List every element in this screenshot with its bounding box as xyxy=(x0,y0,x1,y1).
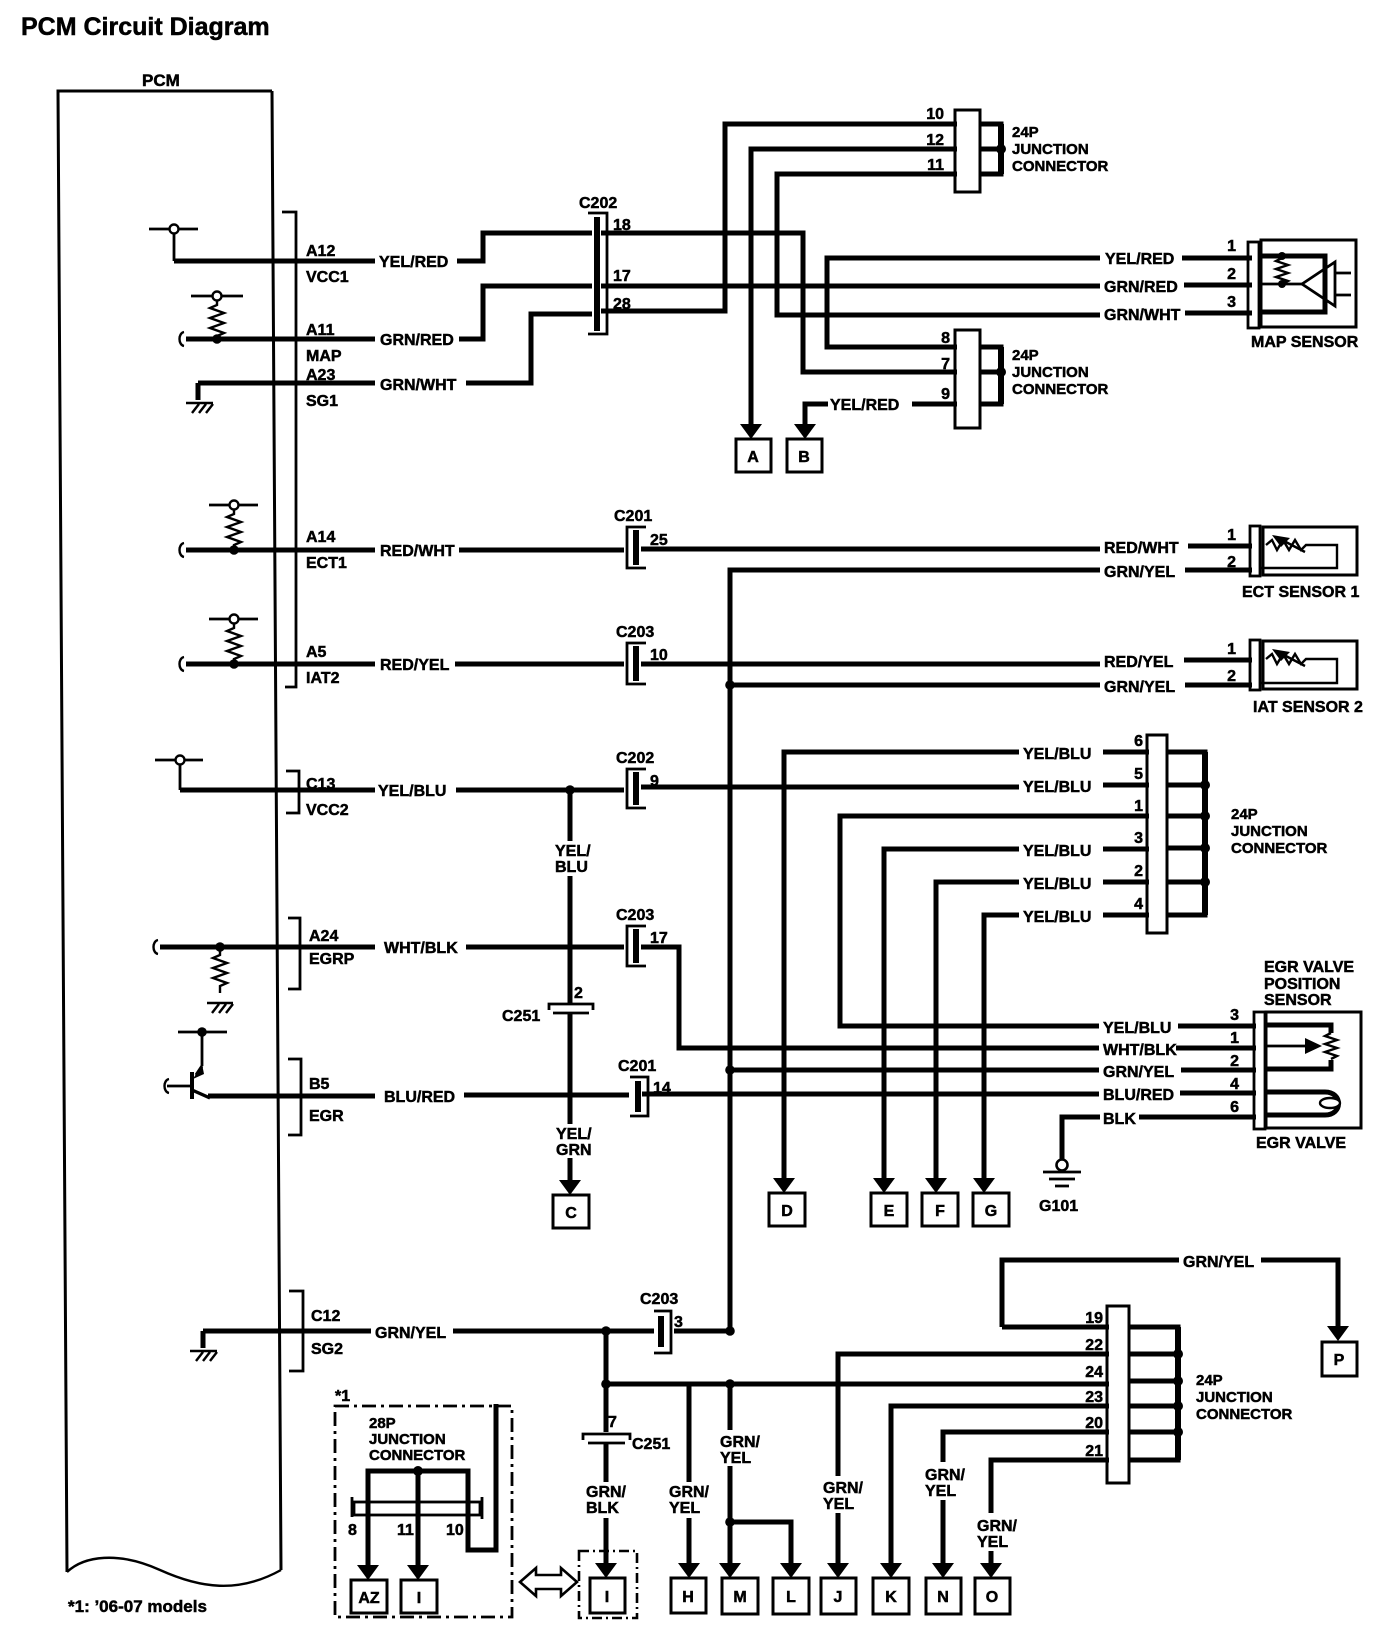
svg-text:AZ: AZ xyxy=(358,1590,380,1607)
label EGR VALVE POSITION SENSOR xyxy=(1264,959,1354,1009)
svg-text:GRN/YEL: GRN/YEL xyxy=(375,1325,446,1342)
svg-text:2: 2 xyxy=(574,985,583,1002)
svg-text:EGR: EGR xyxy=(309,1108,344,1125)
svg-text:19: 19 xyxy=(1085,1310,1103,1327)
wire pin22 row to arrow J xyxy=(838,1354,1109,1564)
arrow to B xyxy=(794,424,816,439)
svg-text:BLU/RED: BLU/RED xyxy=(1103,1087,1174,1104)
wire YEL/BLU drop to C251 xyxy=(568,790,573,841)
svg-text:JUNCTION: JUNCTION xyxy=(1012,364,1089,381)
wire C202-17 to MAP pin2 xyxy=(601,285,1252,286)
MAP internal amplifier triangle xyxy=(1302,262,1335,306)
svg-text:1: 1 xyxy=(1227,641,1236,658)
svg-text:JUNCTION: JUNCTION xyxy=(1196,1389,1273,1406)
svg-text:2: 2 xyxy=(1227,554,1236,571)
svg-text:SG1: SG1 xyxy=(306,393,338,410)
svg-text:E: E xyxy=(884,1203,895,1220)
connector C251 (7) xyxy=(583,1434,630,1443)
arrow to N xyxy=(932,1563,954,1578)
MAP sensor connector bar xyxy=(1248,242,1259,328)
svg-text:A14: A14 xyxy=(306,529,335,546)
junction dot L branch xyxy=(725,1517,735,1527)
svg-text:11: 11 xyxy=(397,1522,414,1539)
arrow to E xyxy=(873,1178,895,1193)
svg-text:6: 6 xyxy=(1134,733,1143,750)
junction connector 24P lower body xyxy=(1107,1306,1129,1483)
node M box xyxy=(722,1578,758,1614)
svg-text:G101: G101 xyxy=(1039,1198,1078,1215)
svg-text:22: 22 xyxy=(1085,1337,1103,1354)
wire ECT pin2 GRN/YEL xyxy=(730,570,1252,683)
svg-text:24P: 24P xyxy=(1012,347,1039,364)
svg-text:YEL/BLU: YEL/BLU xyxy=(1023,909,1091,926)
svg-text:RED/YEL: RED/YEL xyxy=(1104,654,1174,671)
svg-text:C203: C203 xyxy=(616,624,654,641)
wire pin24 row xyxy=(606,1382,1109,1387)
junction dot C12 branch xyxy=(601,1326,611,1336)
wire branch down to C251 xyxy=(604,1331,609,1384)
svg-text:EGRP: EGRP xyxy=(309,951,355,968)
svg-text:BLU: BLU xyxy=(555,859,588,876)
svg-text:C251: C251 xyxy=(502,1008,540,1025)
wire YEL/GRN to arrow C xyxy=(568,1014,573,1181)
svg-text:12: 12 xyxy=(926,132,944,149)
svg-text:10: 10 xyxy=(926,106,944,123)
MAP amplifier output stubs xyxy=(1335,273,1351,295)
wire pin20 row to arrow N xyxy=(943,1432,1109,1564)
junction upper bus bracket xyxy=(980,124,1006,174)
svg-text:1: 1 xyxy=(1227,238,1236,255)
wire C202-18 to junction pin7 xyxy=(601,233,957,372)
svg-text:BLK: BLK xyxy=(1103,1111,1136,1128)
wire C203-10 to IAT pin1 xyxy=(641,660,1252,664)
svg-text:7: 7 xyxy=(608,1414,617,1431)
bracket pin A24 xyxy=(288,918,300,989)
IAT sensor connector bar xyxy=(1250,640,1260,690)
ground SG2 internal xyxy=(190,1331,217,1361)
svg-text:GRN/: GRN/ xyxy=(586,1484,627,1501)
svg-text:A: A xyxy=(747,449,759,466)
svg-text:YEL/BLU: YEL/BLU xyxy=(1023,746,1091,763)
svg-text:WHT/BLK: WHT/BLK xyxy=(1103,1042,1177,1059)
svg-text:2: 2 xyxy=(1227,266,1236,283)
label GRN/YEL O xyxy=(977,1518,1018,1551)
svg-text:YEL/BLU: YEL/BLU xyxy=(1023,779,1091,796)
svg-text:*1: ’06-07 models: *1: ’06-07 models xyxy=(68,1597,207,1616)
label 24P junction connector second xyxy=(1012,347,1109,398)
svg-text:28P: 28P xyxy=(369,1415,396,1432)
svg-text:A12: A12 xyxy=(306,243,335,260)
svg-text:17: 17 xyxy=(650,930,668,947)
28P connector body xyxy=(352,1497,482,1519)
connector C202 (9) xyxy=(627,769,646,808)
svg-text:C203: C203 xyxy=(640,1291,678,1308)
svg-text:8: 8 xyxy=(348,1522,357,1539)
label GRN/YEL N xyxy=(925,1467,966,1500)
svg-text:M: M xyxy=(733,1589,746,1606)
svg-text:YEL/RED: YEL/RED xyxy=(830,397,899,414)
svg-text:GRN/YEL: GRN/YEL xyxy=(1104,564,1175,581)
svg-text:VCC2: VCC2 xyxy=(306,802,349,819)
label GRN/YEL M xyxy=(720,1434,761,1467)
svg-text:P: P xyxy=(1334,1352,1345,1369)
svg-text:18: 18 xyxy=(613,217,631,234)
connector C202 (18/17/28) xyxy=(588,213,607,334)
label GRN/YEL J xyxy=(823,1480,864,1513)
svg-text:10: 10 xyxy=(446,1522,464,1539)
svg-text:BLK: BLK xyxy=(586,1500,619,1517)
wire branch to arrow L xyxy=(730,1522,791,1564)
connector C201 (14) xyxy=(630,1077,648,1116)
svg-text:GRN/WHT: GRN/WHT xyxy=(380,377,457,394)
svg-text:VCC1: VCC1 xyxy=(306,269,349,286)
node I box alt xyxy=(401,1580,437,1613)
ECT sensor connector bar xyxy=(1250,526,1260,576)
node P box xyxy=(1322,1342,1357,1376)
label 24P junction connector lower xyxy=(1196,1372,1293,1423)
svg-text:GRN: GRN xyxy=(556,1142,592,1159)
svg-text:GRN/YEL: GRN/YEL xyxy=(1183,1254,1254,1271)
svg-text:JUNCTION: JUNCTION xyxy=(369,1431,446,1448)
svg-text:YEL: YEL xyxy=(669,1500,700,1517)
svg-text:CONNECTOR: CONNECTOR xyxy=(1012,158,1109,175)
wire A23 GRN/WHT to C202-28 xyxy=(198,314,592,383)
wire GRN/YEL bus vertical xyxy=(728,570,733,1331)
junction dot GRN/YEL bus EGR branch xyxy=(725,1065,735,1075)
svg-text:*1: *1 xyxy=(335,1388,350,1405)
svg-text:3: 3 xyxy=(1134,830,1143,847)
svg-text:YEL: YEL xyxy=(925,1483,956,1500)
wire GRN/YEL bus to arrow M xyxy=(728,1384,733,1564)
svg-text:O: O xyxy=(986,1589,998,1606)
svg-text:L: L xyxy=(786,1589,796,1606)
svg-text:B: B xyxy=(798,449,810,466)
svg-text:21: 21 xyxy=(1085,1443,1103,1460)
EGR valve solenoid xyxy=(1265,1092,1340,1115)
svg-text:28: 28 xyxy=(613,296,631,313)
arrow to J xyxy=(827,1563,849,1578)
wire C12 GRN/YEL xyxy=(203,1329,730,1334)
svg-text:SENSOR: SENSOR xyxy=(1264,992,1332,1009)
wire 28P pin8 to arrow AZ xyxy=(366,1505,371,1566)
connector C203 (10) xyxy=(627,643,646,684)
svg-text:RED/WHT: RED/WHT xyxy=(380,543,455,560)
svg-text:MAP: MAP xyxy=(306,348,342,365)
node K box xyxy=(873,1578,909,1614)
wire A11 GRN/RED to C202-17 xyxy=(186,286,592,339)
svg-text:B5: B5 xyxy=(309,1076,330,1093)
svg-text:GRN/: GRN/ xyxy=(823,1480,864,1497)
wire junction pin4 YEL/BLU to arrow G xyxy=(984,915,1149,1178)
wire C13 YEL/BLU to C202-9 xyxy=(180,788,624,793)
wire GRN/BLK to arrow I xyxy=(604,1444,609,1564)
node AZ box xyxy=(351,1580,387,1613)
dash-dot box around I xyxy=(579,1551,637,1618)
connector C203 (17) xyxy=(627,926,646,966)
node E box xyxy=(871,1193,907,1226)
node B box xyxy=(787,439,822,472)
wire junction pin3 YEL/BLU to arrow E xyxy=(884,849,1149,1178)
junction dot YEL/BLU branch xyxy=(565,785,575,795)
svg-text:CONNECTOR: CONNECTOR xyxy=(1012,381,1109,398)
MAP internal resistor xyxy=(1276,252,1288,288)
svg-text:YEL/BLU: YEL/BLU xyxy=(1023,876,1091,893)
wire EGR pin3 stub xyxy=(1178,1024,1256,1029)
svg-text:YEL/BLU: YEL/BLU xyxy=(378,783,446,800)
bracket pins A12-SG1 xyxy=(282,212,296,687)
svg-text:N: N xyxy=(937,1589,949,1606)
label YEL/BLU drop xyxy=(555,843,591,876)
junction connector 24P middle body xyxy=(1147,735,1167,933)
node N box xyxy=(926,1578,961,1614)
svg-text:1: 1 xyxy=(1230,1030,1239,1047)
svg-text:YEL/: YEL/ xyxy=(555,843,591,860)
svg-text:8: 8 xyxy=(941,330,950,347)
svg-text:JUNCTION: JUNCTION xyxy=(1012,141,1089,158)
svg-text:24P: 24P xyxy=(1012,124,1039,141)
svg-text:I: I xyxy=(605,1589,609,1606)
svg-text:YEL/BLU: YEL/BLU xyxy=(1103,1020,1171,1037)
wire pin21 row to arrow O xyxy=(991,1460,1109,1564)
wire junction pin2 YEL/BLU to arrow F xyxy=(936,882,1149,1178)
wire B5 BLU/RED to C201-14 xyxy=(208,1095,629,1096)
wire MAP pin3 stub xyxy=(1185,311,1252,316)
arrow to G xyxy=(973,1178,995,1193)
svg-text:IAT2: IAT2 xyxy=(306,670,340,687)
connector C251 (2) xyxy=(549,1004,593,1013)
svg-text:3: 3 xyxy=(1230,1007,1239,1024)
svg-text:EGR VALVE: EGR VALVE xyxy=(1264,959,1354,976)
arrow to P xyxy=(1327,1326,1349,1341)
svg-text:ECT SENSOR 1: ECT SENSOR 1 xyxy=(1242,584,1359,601)
svg-text:2: 2 xyxy=(1227,668,1236,685)
label 28P junction connector xyxy=(369,1415,466,1464)
resistor pull-up A5 xyxy=(209,615,258,669)
hook A11 xyxy=(180,332,185,346)
svg-text:YEL/RED: YEL/RED xyxy=(1105,251,1174,268)
node F box xyxy=(922,1193,958,1226)
svg-text:GRN/: GRN/ xyxy=(720,1434,761,1451)
wire GRN/YEL to arrow P xyxy=(1002,1260,1338,1327)
svg-text:GRN/: GRN/ xyxy=(977,1518,1018,1535)
svg-text:GRN/RED: GRN/RED xyxy=(380,332,454,349)
wire drop to C251 pin7 xyxy=(604,1384,609,1432)
arrow to I alt xyxy=(407,1565,429,1580)
svg-text:17: 17 xyxy=(613,268,631,285)
svg-text:6: 6 xyxy=(1230,1099,1239,1116)
svg-text:4: 4 xyxy=(1230,1076,1239,1093)
svg-text:GRN/: GRN/ xyxy=(925,1467,966,1484)
voltage source VCC2 xyxy=(155,756,203,791)
wire pin23 row to arrow K xyxy=(891,1406,1109,1564)
junction lower bus bracket xyxy=(1129,1327,1183,1460)
svg-text:24P: 24P xyxy=(1196,1372,1223,1389)
wire junction pin9 YEL/RED to arrow B xyxy=(805,404,957,424)
connector C201 (25) xyxy=(627,527,646,568)
label 24P junction connector upper xyxy=(1012,124,1109,175)
wire A14 RED/WHT to C201-25 xyxy=(186,548,624,553)
svg-text:A5: A5 xyxy=(306,644,327,661)
MAP sensor box xyxy=(1261,240,1356,327)
resistor pull-down A24 with ground xyxy=(207,942,233,1013)
wire YEL/BLU drop lower xyxy=(568,876,573,1003)
svg-text:IAT SENSOR 2: IAT SENSOR 2 xyxy=(1253,699,1363,716)
voltage source VCC1 xyxy=(149,225,198,262)
svg-text:24: 24 xyxy=(1085,1364,1103,1381)
svg-text:2: 2 xyxy=(1134,863,1143,880)
PCM box xyxy=(58,91,281,1572)
wire C201-14 to EGR valve pin4 xyxy=(642,1093,1256,1094)
svg-text:RED/WHT: RED/WHT xyxy=(1104,540,1179,557)
svg-text:PCM Circuit Diagram: PCM Circuit Diagram xyxy=(21,13,270,41)
wire A5 RED/YEL to C203-10 xyxy=(186,662,624,667)
svg-text:25: 25 xyxy=(650,532,668,549)
svg-text:PCM: PCM xyxy=(142,71,180,90)
svg-text:ECT1: ECT1 xyxy=(306,555,347,572)
label GRN/BLK xyxy=(586,1484,627,1517)
transistor Q1 EGR driver xyxy=(165,1027,228,1099)
node L box xyxy=(773,1578,809,1614)
svg-text:J: J xyxy=(834,1589,843,1606)
node D box xyxy=(769,1193,805,1226)
svg-text:4: 4 xyxy=(1134,896,1143,913)
svg-text:G: G xyxy=(985,1203,997,1220)
svg-text:YEL: YEL xyxy=(720,1450,751,1467)
connector C203 (3) xyxy=(654,1311,671,1353)
svg-text:H: H xyxy=(682,1589,694,1606)
svg-text:5: 5 xyxy=(1134,766,1143,783)
svg-text:A24: A24 xyxy=(309,928,338,945)
svg-text:C202: C202 xyxy=(616,750,654,767)
svg-text:C202: C202 xyxy=(579,195,617,212)
svg-text:23: 23 xyxy=(1085,1389,1103,1406)
svg-text:C203: C203 xyxy=(616,907,654,924)
svg-text:GRN/YEL: GRN/YEL xyxy=(1103,1064,1174,1081)
svg-text:3: 3 xyxy=(1227,294,1236,311)
EGR position sensor potentiometer xyxy=(1265,1025,1337,1069)
node O box xyxy=(975,1578,1010,1614)
bracket pin C12 xyxy=(289,1291,303,1371)
MAP internal wire pin2 xyxy=(1259,283,1302,286)
hook A24 xyxy=(154,940,159,954)
svg-text:10: 10 xyxy=(650,647,668,664)
bracket pin B5 xyxy=(288,1059,301,1135)
node I box xyxy=(590,1578,625,1613)
svg-text:C251: C251 xyxy=(632,1436,670,1453)
junction connector 24P second body xyxy=(955,330,980,428)
svg-text:GRN/: GRN/ xyxy=(669,1484,710,1501)
EGR valve box xyxy=(1266,1012,1361,1128)
wire 28P pin10 riser xyxy=(468,1404,496,1550)
label YEL/GRN xyxy=(556,1126,592,1159)
arrow to K xyxy=(880,1563,902,1578)
arrow to M xyxy=(719,1563,741,1578)
node G box xyxy=(973,1193,1009,1226)
wire A12 YEL/RED to C202-18 xyxy=(174,233,592,261)
wire GRN/YEL to EGR pin2 xyxy=(730,1068,1256,1073)
svg-text:WHT/BLK: WHT/BLK xyxy=(384,940,458,957)
svg-text:F: F xyxy=(935,1203,945,1220)
wire junction pin1 thick xyxy=(840,816,1149,1026)
svg-text:9: 9 xyxy=(941,386,950,403)
wire junction pin11 to MAP pin3 xyxy=(777,174,1100,315)
svg-text:C201: C201 xyxy=(614,508,652,525)
svg-text:MAP SENSOR: MAP SENSOR xyxy=(1251,334,1359,351)
svg-text:CONNECTOR: CONNECTOR xyxy=(1196,1406,1293,1423)
wire junction pin12 to arrow A xyxy=(751,149,957,424)
svg-text:RED/YEL: RED/YEL xyxy=(380,657,450,674)
svg-text:20: 20 xyxy=(1085,1415,1103,1432)
junction middle bus bracket xyxy=(1167,752,1210,915)
node H box xyxy=(671,1578,706,1613)
arrow to A xyxy=(740,424,762,439)
resistor pull-up A14 xyxy=(209,501,258,555)
node C box xyxy=(553,1195,589,1228)
svg-text:1: 1 xyxy=(1227,527,1236,544)
arrow to H xyxy=(678,1563,700,1578)
arrow to O xyxy=(980,1563,1002,1578)
arrow to L xyxy=(780,1563,802,1578)
junction dot GRN/YEL bus C12 xyxy=(725,1326,735,1336)
svg-text:CONNECTOR: CONNECTOR xyxy=(369,1447,466,1464)
svg-text:GRN/RED: GRN/RED xyxy=(1104,279,1178,296)
wire C202-28 to junction pin10 xyxy=(601,124,957,311)
arrow to I xyxy=(595,1563,617,1578)
junction dot GRN/YEL bus IAT xyxy=(725,680,735,690)
svg-text:I: I xyxy=(417,1590,421,1607)
svg-text:A11: A11 xyxy=(306,322,335,339)
ground G101 xyxy=(1043,1160,1081,1187)
ECT thermistor xyxy=(1260,535,1337,568)
svg-text:GRN/YEL: GRN/YEL xyxy=(1104,679,1175,696)
svg-text:SG2: SG2 xyxy=(311,1341,343,1358)
svg-text:1: 1 xyxy=(1134,798,1143,815)
svg-text:3: 3 xyxy=(674,1314,683,1331)
svg-text:2: 2 xyxy=(1230,1053,1239,1070)
svg-text:D: D xyxy=(781,1203,793,1220)
svg-text:K: K xyxy=(885,1589,897,1606)
arrow to AZ xyxy=(357,1565,379,1580)
wire A24 WHT/BLK to C203-17 xyxy=(160,945,624,950)
ground SG1 internal xyxy=(186,383,213,413)
svg-text:11: 11 xyxy=(927,157,944,174)
dash-dot box 06-07 models xyxy=(335,1406,512,1617)
ECT sensor box xyxy=(1263,527,1357,575)
svg-text:BLU/RED: BLU/RED xyxy=(384,1089,455,1106)
junction connector 24P upper body xyxy=(955,110,980,192)
wire BLK to G101 xyxy=(1062,1117,1256,1160)
node J box xyxy=(821,1578,856,1614)
wire branch to arrow H xyxy=(687,1384,692,1564)
svg-text:YEL: YEL xyxy=(977,1534,1008,1551)
arrow to D xyxy=(773,1178,795,1193)
equivalence double arrow xyxy=(520,1568,577,1596)
svg-text:YEL/BLU: YEL/BLU xyxy=(1023,843,1091,860)
svg-text:YEL/: YEL/ xyxy=(556,1126,592,1143)
junction second bus bracket xyxy=(980,347,1006,404)
wire IAT pin2 GRN/YEL xyxy=(730,683,1252,688)
svg-text:YEL: YEL xyxy=(823,1496,854,1513)
svg-text:C: C xyxy=(565,1205,577,1222)
svg-text:7: 7 xyxy=(941,356,950,373)
junction dot branch H row xyxy=(601,1379,611,1389)
svg-text:JUNCTION: JUNCTION xyxy=(1231,823,1308,840)
svg-text:C12: C12 xyxy=(311,1308,340,1325)
label GRN/YEL H xyxy=(669,1484,710,1517)
label 24P junction connector middle xyxy=(1231,806,1328,857)
svg-text:POSITION: POSITION xyxy=(1264,976,1340,993)
junction dot bus at pin24 row xyxy=(725,1379,735,1389)
